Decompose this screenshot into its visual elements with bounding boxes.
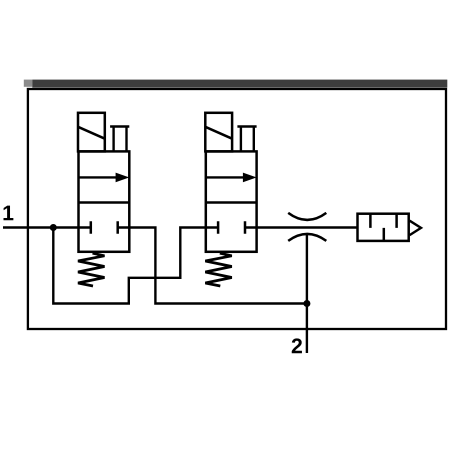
blocked port bars V1 (91, 221, 118, 233)
flow path arrow V1 (79, 176, 120, 178)
silencer exhaust triangle (410, 221, 421, 235)
wire from node 1 to valve V2 inlet (53, 228, 218, 304)
manual override body V2 (241, 127, 254, 152)
solenoid coil V2 (205, 113, 232, 152)
manual override body V1 (114, 127, 127, 152)
flow path arrow V2 (206, 176, 247, 178)
wire port 2 drop (306, 234, 308, 353)
throttle (restrictor) upper arc (288, 213, 326, 220)
wire port 1 supply (3, 226, 91, 228)
wire from valve V1 outlet to node 2 (118, 228, 307, 304)
return spring V2 (205, 253, 232, 286)
return spring V1 (78, 253, 105, 286)
solenoid diagonal V2 (205, 127, 232, 139)
frame accent square (grey) (24, 80, 33, 87)
solenoid coil V1 (78, 113, 105, 152)
blocked port bars V2 (218, 221, 245, 233)
valve V1 (2/2-way solenoid valve, normally closed) (78, 113, 129, 286)
wire valve V2 outlet to silencer (245, 226, 358, 228)
enclosure border (28, 89, 446, 329)
valve body V1 (79, 151, 130, 251)
manual override cap V1 (110, 125, 129, 127)
valve body V2 (206, 151, 257, 251)
port label 2 (292, 338, 302, 353)
valve V2 (2/2-way solenoid valve, normally closed) (205, 113, 256, 286)
throttle (restrictor) lower arc (288, 234, 326, 241)
manual override cap V2 (237, 125, 256, 127)
silencer internal baffles (370, 215, 396, 241)
silencer U1 body (358, 214, 409, 241)
node junction 2 (303, 300, 310, 307)
port label 1 (3, 206, 13, 221)
valve position divider V1 (79, 201, 130, 204)
valve position divider V2 (206, 201, 257, 204)
frame top bar (dark) (32, 80, 447, 88)
solenoid diagonal V1 (78, 127, 105, 139)
node junction on port 1 (50, 224, 57, 231)
